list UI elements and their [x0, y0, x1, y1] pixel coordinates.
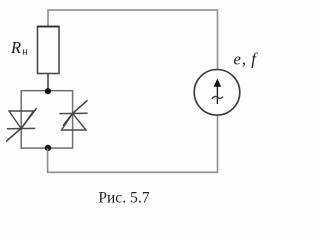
svg-text:н: н [22, 47, 28, 58]
wire: bottom run from node B to source bottom [48, 115, 218, 172]
node A (top junction dot) [45, 88, 51, 94]
source G1: tilde (AC mark) [212, 96, 223, 99]
thyristor VS2 (right, anode down) [59, 100, 87, 130]
wire: thyristor block frame (parallel box) [21, 91, 72, 148]
label e,f [234, 49, 259, 68]
source G1: AC source circle [194, 70, 240, 116]
thyristor VS1 (left, anode up) [6, 108, 37, 141]
label RН [10, 38, 28, 58]
source G1: current arrow [214, 79, 221, 105]
svg-text:e, f: e, f [234, 49, 259, 68]
wire: top run from resistor top to right branch [48, 10, 218, 70]
svg-text:Рис. 5.7: Рис. 5.7 [98, 190, 150, 207]
resistor RН [37, 27, 60, 74]
node B (bottom junction dot) [45, 145, 51, 151]
wire: resistor bottom to node A [47, 74, 49, 91]
svg-text:R: R [10, 38, 21, 57]
caption Рис. 5.7 [98, 190, 150, 207]
